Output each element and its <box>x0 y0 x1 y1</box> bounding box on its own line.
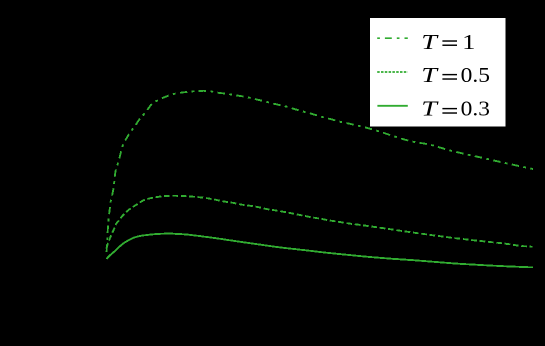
curve T=1 (dash-dot green) <box>107 91 533 252</box>
curve T=0.3 (solid green) <box>107 234 534 268</box>
legend sample line T=0.3 (solid) <box>377 105 407 107</box>
legend sample line T=1 (dash-dot) <box>377 37 408 39</box>
svg-text:0.5: 0.5 <box>461 63 490 87</box>
svg-text:T: T <box>421 97 439 121</box>
legend box <box>370 18 506 127</box>
legend sample line T=0.5 (fine dash) <box>377 71 408 73</box>
svg-text:1: 1 <box>462 30 475 54</box>
svg-text:0.3: 0.3 <box>461 97 490 121</box>
svg-text:T: T <box>421 30 439 54</box>
svg-text:T: T <box>421 63 439 87</box>
curve T=0.5 (fine dashed green) <box>107 196 533 249</box>
